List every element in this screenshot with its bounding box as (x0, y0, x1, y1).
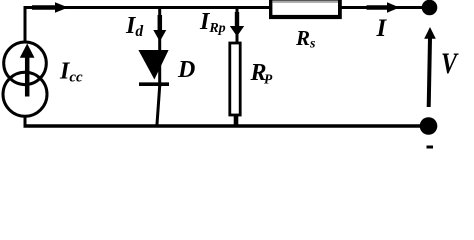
voltage arrow V (429, 38, 430, 107)
svg-text:Rs: Rs (295, 26, 316, 52)
svg-text:V: V (441, 48, 459, 80)
resistor Rs body (269, 0, 342, 19)
current arrow Id (158, 15, 163, 31)
current arrow IRp (235, 12, 239, 27)
resistor Rs top shading (272, 1, 338, 3)
wire diode branch lower stub (157, 86, 160, 127)
current source internal arrow (25, 57, 30, 97)
wire Rp branch lower (234, 116, 239, 127)
svg-text:I: I (376, 15, 388, 42)
svg-text:Icc: Icc (59, 58, 83, 85)
svg-text:Id: Id (125, 13, 143, 40)
wire diode branch vertical (158, 8, 161, 88)
resistor Rp body (230, 43, 240, 115)
output node bottom (-) terminal (420, 117, 438, 135)
current arrow I on output wire (367, 5, 389, 10)
svg-text:RP: RP (250, 60, 274, 87)
svg-text:D: D (177, 57, 195, 83)
output node top (+) terminal (422, 0, 438, 15)
current direction arrow on top-left wire (32, 5, 56, 10)
wire left vertical lower (24, 116, 27, 128)
wire bottom horizontal (24, 124, 422, 128)
current source Icc (two overlapping circles) (4, 42, 47, 85)
svg-text:IRp: IRp (199, 9, 226, 36)
minus sign below bottom node (427, 146, 434, 149)
diode D cathode bar (139, 82, 169, 86)
wire top left horizontal (24, 6, 271, 9)
wire Rp branch upper (236, 8, 239, 45)
wire top right horizontal (341, 6, 422, 9)
diode D triangle (138, 50, 168, 80)
wire left vertical upper (24, 7, 27, 44)
